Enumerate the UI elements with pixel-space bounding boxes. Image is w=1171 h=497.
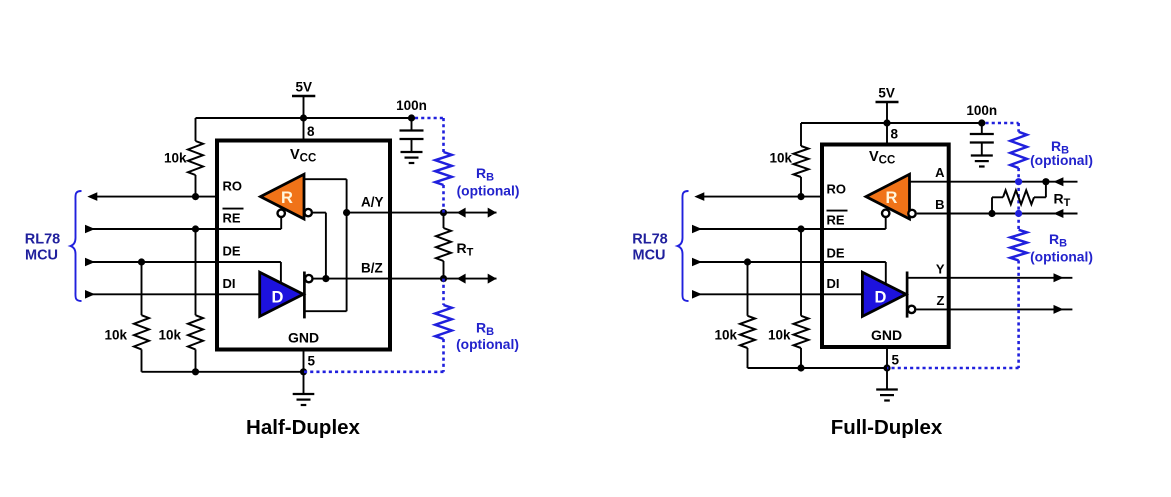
svg-text:(optional): (optional) (457, 184, 520, 199)
wire RO to MCU (90, 196, 217, 198)
arrow RE into IC (85, 225, 95, 234)
pin label A (U2) (935, 165, 945, 180)
svg-text:10k: 10k (714, 328, 737, 343)
blue junction B line / RB net (1015, 210, 1022, 217)
wire blue dashed RB to ground rail (full-duplex) (887, 260, 1019, 368)
driver output bar (U2) (906, 272, 909, 318)
node A/Y internal junction (343, 209, 350, 216)
pin label Vcc (U2) (869, 149, 895, 167)
junction RT / B line (988, 210, 995, 217)
arrow A line incoming (1053, 177, 1063, 186)
svg-text:D: D (875, 289, 887, 307)
value label 100n (C1) (396, 98, 427, 113)
label optional top (full-duplex) (1030, 153, 1093, 168)
svg-text:RT: RT (1054, 191, 1071, 210)
svg-text:B/Z: B/Z (361, 260, 383, 275)
junction RT / A line (1042, 178, 1049, 185)
junction Vcc rail / C1 (408, 114, 415, 121)
svg-text:Z: Z (937, 293, 945, 308)
svg-text:B: B (935, 197, 944, 212)
svg-text:MCU: MCU (25, 248, 58, 264)
label RB bottom (half-duplex) (476, 320, 494, 339)
value label 100n (C2) (966, 103, 997, 118)
svg-text:D: D (272, 289, 284, 307)
wire A/Y line (347, 212, 497, 214)
arrow RO toward MCU (87, 192, 97, 201)
pin label Vcc (U1) (290, 147, 316, 165)
svg-text:5: 5 (892, 353, 900, 368)
pin number 8 label (full-duplex) (891, 127, 899, 142)
junction pin5 / ground rail (300, 368, 307, 375)
wire RE enable to RE line (U2) (822, 218, 886, 229)
value label 10k (R2) (104, 328, 127, 343)
arrow DI into IC (full-duplex) (692, 290, 702, 299)
pin label B/Z (U1) (361, 260, 383, 275)
capacitor C1 100n (400, 118, 424, 139)
op-amp style receiver R (U2, orange) (866, 174, 910, 219)
svg-text:8: 8 (307, 124, 315, 139)
junction Vcc rail / pin 8 (300, 114, 307, 121)
svg-text:RT: RT (457, 240, 474, 259)
svg-text:10k: 10k (104, 328, 127, 343)
pin label DI (U2) (827, 276, 840, 291)
wire receiver B input to B/Z (313, 213, 326, 279)
svg-text:5: 5 (308, 354, 316, 369)
wire pin 8 into IC (full-duplex) (886, 123, 888, 145)
wire blue dashed B to RB bottom (full-duplex) (1017, 214, 1020, 230)
svg-text:DI: DI (827, 276, 840, 291)
value label 10k (R1) (164, 151, 187, 166)
pin label Z (U2) (937, 293, 945, 308)
wire driver Y output line (907, 277, 1072, 279)
svg-text:RB: RB (1049, 231, 1067, 250)
pin label GND (U2) (871, 327, 902, 343)
wire DI from MCU (full-duplex) (695, 293, 822, 295)
wire blue dashed C2 to RB top (full-duplex) (986, 123, 1019, 132)
wire blue dashed RB to ground rail (304, 339, 444, 372)
pin label DI (U1) (223, 276, 236, 291)
arrow RE into IC (full-duplex) (692, 225, 702, 234)
svg-text:100n: 100n (396, 98, 427, 113)
svg-text:GND: GND (871, 327, 902, 343)
arrow A/Y bus left (457, 208, 466, 218)
resistor R1 10k pull-up (188, 118, 203, 197)
resistor RT termination (half-duplex) (436, 213, 451, 279)
ground symbol under C1 (401, 139, 423, 163)
label RB top (half-duplex) (476, 165, 494, 184)
capacitor C2 100n (full-duplex) (970, 123, 994, 143)
op-amp style receiver R (U1, orange) (261, 174, 305, 219)
wire DI to driver input (U2) (822, 293, 862, 295)
label optional top (half-duplex) (457, 184, 520, 199)
label RT (half-duplex) (457, 240, 474, 259)
svg-text:RL78: RL78 (25, 231, 60, 247)
label RT (full-duplex) (1054, 191, 1071, 210)
bubble driver Z output (U2) (908, 306, 915, 313)
svg-text:A/Y: A/Y (361, 194, 384, 209)
svg-text:5V: 5V (878, 85, 895, 100)
value label 10k (R3) (158, 328, 181, 343)
junction R3 / ground rail (192, 368, 199, 375)
pin label GND (U1) (288, 330, 319, 346)
arrow A/Y bus right (488, 208, 497, 218)
svg-text:Half-Duplex: Half-Duplex (246, 416, 361, 439)
IC box U2 transceiver (full-duplex) (822, 145, 949, 348)
svg-text:RL78: RL78 (632, 231, 667, 247)
ground symbol (half-duplex) (293, 372, 315, 405)
Vcc rail wire (196, 117, 412, 119)
wire driver inverting output to B/Z (314, 278, 326, 280)
junction Vcc rail / C2 (978, 119, 985, 126)
Vcc rail wire (full-duplex) (801, 122, 982, 124)
svg-text:RE: RE (223, 211, 241, 226)
value label 10k (R4) (769, 151, 792, 166)
arrow Z line outgoing (1054, 305, 1064, 314)
svg-text:10k: 10k (158, 328, 181, 343)
svg-text:VCC: VCC (869, 149, 895, 167)
junction A/Y bus (440, 209, 447, 216)
wire pin 8 into IC (303, 118, 305, 141)
pin number 8 label (307, 124, 315, 139)
wire RO to MCU (full-duplex) (697, 196, 822, 198)
wire blue dashed A to B (full-duplex) (1017, 182, 1020, 214)
value label 10k (R6) (768, 328, 791, 343)
wire B/Z line (326, 278, 497, 280)
svg-text:(optional): (optional) (456, 337, 519, 352)
label optional bottom (full-duplex) (1030, 250, 1093, 265)
wire 5V to Vcc rail (303, 96, 305, 118)
label RL78 MCU (25, 231, 60, 263)
svg-text:RO: RO (223, 179, 243, 194)
bubble receiver B input (U2) (908, 210, 915, 217)
arrow DI into IC (85, 290, 95, 299)
transistor-style driver D (U1, blue) (260, 272, 304, 316)
resistor RB optional bottom (half-duplex) (435, 305, 452, 339)
label optional bottom (half-duplex) (456, 337, 519, 352)
junction DE line / pull-down (full-duplex) (744, 258, 751, 265)
ground rail wire (bottom) (142, 371, 304, 373)
resistor R3 10k pull-down on RE (188, 229, 203, 372)
wire pin 5 to ground (full-duplex) (886, 347, 888, 368)
arrow DE into IC (85, 258, 95, 267)
wire receiver A input line (910, 181, 1078, 183)
pin label RO (U1) (223, 179, 243, 194)
ground symbol (full-duplex) (876, 368, 898, 401)
svg-text:DE: DE (827, 246, 845, 261)
wire DE from MCU (full-duplex) (695, 261, 822, 263)
wire RE from MCU (88, 228, 217, 230)
arrow B/Z bus left (457, 274, 466, 284)
junction R6 / ground rail (full-duplex) (797, 364, 804, 371)
pin label RE with overline (U2) (827, 211, 848, 228)
svg-text:(optional): (optional) (1030, 153, 1093, 168)
junction R1 / RO line (192, 193, 199, 200)
arrow B line incoming (1053, 209, 1063, 218)
junction DE line / pull-down (138, 258, 145, 265)
wire DE from MCU (88, 261, 217, 263)
wire DI to driver input (217, 293, 260, 295)
brace MCU port group (71, 191, 82, 301)
pin label RE with overline (U1) (223, 209, 244, 226)
wire 5V to Vcc rail (full-duplex) (886, 102, 888, 123)
label RB top (full-duplex) (1051, 138, 1069, 157)
bubble receiver B input (305, 209, 312, 216)
svg-text:Y: Y (936, 261, 945, 276)
wire DE enable to driver (U2) (822, 262, 886, 285)
wire DI from MCU (88, 293, 217, 295)
pin label A/Y (U1) (361, 194, 384, 209)
wire blue dashed RB to A/Y (442, 185, 445, 213)
svg-text:100n: 100n (966, 103, 997, 118)
svg-text:Full-Duplex: Full-Duplex (831, 416, 943, 439)
ground symbol under C2 (971, 143, 993, 167)
ground rail wire (full-duplex) (748, 367, 888, 369)
svg-text:(optional): (optional) (1030, 250, 1093, 265)
junction pin5 / ground rail (full-duplex) (883, 364, 890, 371)
label RB bottom (full-duplex) (1049, 231, 1067, 250)
arrow Y line outgoing (1054, 273, 1064, 282)
junction B/Z bus (440, 275, 447, 282)
wire DE enable to driver (217, 262, 281, 284)
junction RE line / pull-down (192, 225, 199, 232)
svg-text:A: A (935, 165, 945, 180)
svg-text:RB: RB (476, 165, 494, 184)
driver output bar (303, 272, 306, 319)
wire RE from MCU (full-duplex) (695, 228, 822, 230)
svg-text:GND: GND (288, 330, 319, 346)
wire receiver B input line (917, 213, 1078, 215)
svg-text:5V: 5V (295, 79, 312, 94)
pin label RO (U2) (827, 182, 847, 197)
svg-text:RE: RE (827, 213, 845, 228)
brace MCU port group (full-duplex) (678, 191, 689, 301)
title Half-Duplex (246, 416, 361, 439)
pin label Y (U2) (936, 261, 945, 276)
wire blue dashed RB to A line (1017, 168, 1020, 182)
resistor R6 10k pull-down on RE (full-duplex) (794, 229, 809, 368)
svg-text:R: R (281, 189, 293, 207)
junction RE line / pull-down (full-duplex) (797, 225, 804, 232)
svg-text:10k: 10k (768, 328, 791, 343)
pin number 5 label (308, 354, 316, 369)
wire receiver A input from A/Y (304, 179, 347, 212)
svg-text:DI: DI (223, 276, 236, 291)
resistor RB optional top (half-duplex) (435, 152, 452, 185)
svg-text:10k: 10k (164, 151, 187, 166)
svg-text:RB: RB (476, 320, 494, 339)
pin label DE (U2) (827, 246, 845, 261)
arrow RO toward MCU (full-duplex) (694, 192, 704, 201)
IC box U1 transceiver (half-duplex) (217, 141, 390, 350)
resistor RB optional top (full-duplex) (1010, 132, 1027, 168)
label RL78 MCU (full-duplex) (632, 231, 667, 263)
resistor RT termination (full-duplex) (992, 182, 1046, 214)
svg-text:DE: DE (223, 244, 241, 259)
svg-text:RO: RO (827, 182, 847, 197)
blue junction A line / RB net (1015, 178, 1022, 185)
svg-text:VCC: VCC (290, 147, 316, 165)
title Full-Duplex (831, 416, 943, 439)
svg-text:8: 8 (891, 127, 899, 142)
wire driver Z output line (916, 308, 1072, 310)
junction B/Z internal (322, 275, 329, 282)
arrow B/Z bus right (488, 274, 497, 284)
pin label B (U2) (935, 197, 944, 212)
arrow DE into IC (full-duplex) (692, 258, 702, 267)
value label 10k (R5) (714, 328, 737, 343)
svg-text:MCU: MCU (632, 248, 665, 264)
wire RE enable to RE line (217, 218, 281, 229)
wire pin 5 to ground (303, 350, 305, 372)
pin number 5 label (full-duplex) (892, 353, 900, 368)
bubble receiver enable RE (278, 210, 285, 217)
supply symbol 5V (half-duplex) (292, 79, 315, 96)
resistor RB optional bottom (full-duplex) (1010, 230, 1027, 261)
resistor R4 10k pull-up (full-duplex) (794, 123, 809, 197)
pin label DE (U1) (223, 244, 241, 259)
svg-text:10k: 10k (769, 151, 792, 166)
wire blue dashed B/Z to RB bottom (442, 279, 445, 305)
wire driver non-inverting output to A/Y (304, 213, 346, 312)
junction R4 / RO line (full-duplex) (797, 193, 804, 200)
supply symbol 5V (full-duplex) (876, 85, 899, 102)
junction Vcc rail / pin 8 (full-duplex) (883, 119, 890, 126)
bubble receiver enable RE (U2) (882, 210, 889, 217)
resistor R5 10k pull-down on DE (full-duplex) (740, 262, 755, 368)
resistor R2 10k pull-down on DE (134, 262, 149, 372)
svg-text:R: R (886, 189, 898, 207)
transistor-style driver D (U2, blue) (862, 272, 906, 316)
wire blue dashed C1 to RB top (415, 118, 444, 152)
bubble driver inverting output (305, 275, 312, 282)
